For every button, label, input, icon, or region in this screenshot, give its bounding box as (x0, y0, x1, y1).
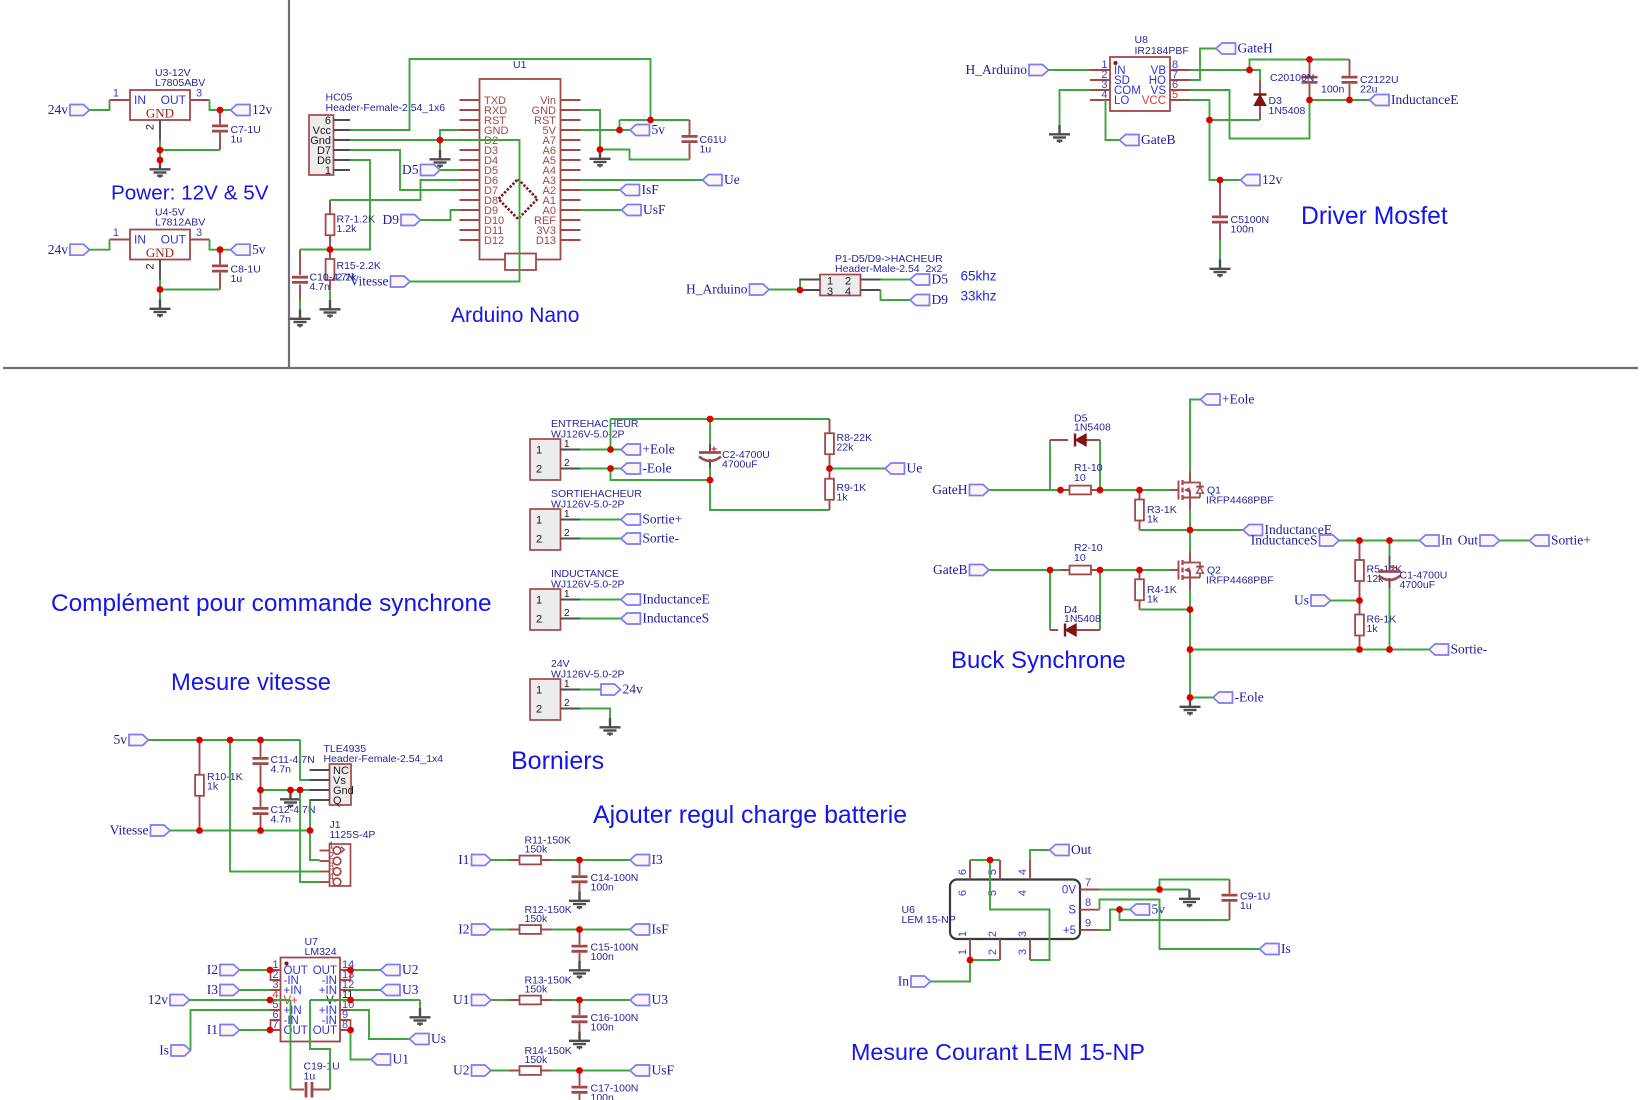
wire (90, 240, 110, 250)
svg-text:65khz: 65khz (961, 269, 997, 284)
wire Q to J1 pin2 (310, 800, 320, 860)
wire (1049, 69, 1091, 71)
net flag Us (1294, 593, 1331, 608)
wire (160, 140, 220, 160)
wire (240, 969, 271, 971)
ground (569, 1032, 590, 1050)
junction (1306, 56, 1313, 63)
svg-text:100n: 100n (591, 1092, 615, 1100)
svg-text:I2: I2 (207, 962, 218, 977)
svg-text:U1: U1 (453, 992, 470, 1007)
svg-text:1: 1 (113, 88, 119, 100)
junction (576, 926, 583, 933)
svg-text:OUT: OUT (284, 1025, 308, 1037)
wire (240, 989, 271, 991)
wire GateB row (989, 569, 1170, 571)
wire (552, 999, 631, 1001)
svg-text:2: 2 (536, 464, 542, 476)
svg-text:IRFP4468PBF: IRFP4468PBF (1206, 575, 1274, 587)
net flag Is (2) (1260, 941, 1291, 956)
svg-text:+5: +5 (1063, 925, 1076, 937)
diode D4 (1050, 570, 1101, 637)
net flag Us (2) (410, 1031, 447, 1046)
junction (967, 957, 974, 964)
junction (616, 127, 623, 134)
capacitor capacitor C2122U (1342, 60, 1399, 101)
svg-text:4.7n: 4.7n (310, 281, 331, 293)
net flag D9 (383, 212, 421, 227)
junction (1187, 694, 1194, 701)
svg-text:4.7n: 4.7n (271, 814, 292, 826)
svg-text:Is: Is (159, 1043, 169, 1058)
wire gnd row (261, 789, 310, 791)
svg-text:5: 5 (1172, 89, 1178, 101)
svg-text:VCC: VCC (1142, 95, 1166, 107)
svg-text:150k: 150k (525, 1054, 549, 1066)
junction (196, 737, 203, 744)
svg-text:Mesure vitesse: Mesure vitesse (171, 669, 331, 696)
svg-text:1: 1 (113, 227, 119, 239)
junction (1187, 646, 1194, 653)
svg-text:Out: Out (1458, 533, 1478, 548)
wire net D7 (350, 150, 460, 190)
net flag +Eole (621, 442, 675, 457)
net flag I1 (ladder) (458, 852, 491, 867)
ground (1180, 698, 1201, 716)
wire gate Q1 (1140, 489, 1171, 491)
svg-text:Q: Q (333, 795, 342, 807)
wire V- net (310, 1000, 420, 1090)
wire InductanceE row (1140, 529, 1244, 531)
capacitor capacitor C12 (253, 790, 316, 831)
junction (347, 967, 354, 974)
svg-text:5: 5 (987, 890, 999, 896)
svg-text:2: 2 (145, 263, 157, 269)
svg-text:3: 3 (827, 286, 833, 298)
svg-text:1k: 1k (1147, 514, 1159, 526)
capacitor capacitor C14 (572, 860, 639, 894)
net flag GateH (1216, 41, 1273, 56)
ground (410, 1008, 431, 1026)
net flag Is (159, 1043, 190, 1058)
svg-text:2: 2 (536, 704, 542, 716)
svg-text:1u: 1u (231, 134, 243, 146)
svg-text:1.2k: 1.2k (337, 223, 358, 235)
wire (580, 689, 601, 691)
svg-text:1N5408: 1N5408 (1074, 422, 1111, 434)
svg-text:LM324: LM324 (305, 946, 337, 958)
wire (300, 250, 330, 310)
gate driver U8 (1090, 34, 1190, 111)
svg-text:1: 1 (564, 589, 570, 600)
wire (769, 280, 820, 291)
svg-text:IsF: IsF (652, 922, 670, 937)
junction (1306, 97, 1313, 104)
junction (797, 287, 804, 294)
svg-text:100n: 100n (591, 951, 615, 963)
capacitor C10 (292, 250, 354, 300)
wire pins 6-5 top (970, 859, 1000, 861)
wire +5 pin (1100, 910, 1120, 931)
net flag Vitesse (2) (110, 823, 170, 838)
svg-text:150k: 150k (525, 984, 549, 996)
svg-text:Sortie+: Sortie+ (1551, 533, 1591, 548)
wire Q1 source (1189, 510, 1191, 553)
net flag U2 (ladder) (453, 1063, 491, 1078)
svg-text:2: 2 (564, 608, 570, 619)
junction (257, 827, 264, 834)
svg-text:C20100N: C20100N (1270, 72, 1314, 84)
capacitor capacitor C16 (572, 1000, 639, 1034)
capacitor capacitor C20100N (1302, 60, 1318, 101)
svg-text:IN: IN (134, 93, 146, 107)
net flag Ue (2) (885, 461, 922, 476)
svg-text:Power: 12V & 5V: Power: 12V & 5V (111, 182, 269, 205)
junction (1116, 906, 1123, 913)
svg-text:1125S-4P: 1125S-4P (330, 829, 376, 841)
svg-text:Arduino Nano: Arduino Nano (451, 304, 579, 327)
resistor resistor R11 (509, 835, 571, 865)
current sensor U6 LEM 15-NP (902, 860, 1100, 960)
net flag InductanceE (1370, 92, 1459, 107)
svg-text:LO: LO (1114, 95, 1129, 107)
wire Vitesse row (170, 830, 310, 832)
svg-text:150k: 150k (525, 913, 549, 925)
ground (280, 790, 301, 808)
svg-text:4: 4 (1101, 89, 1107, 101)
svg-text:24v: 24v (623, 682, 644, 697)
net flag 24v (2) (48, 242, 90, 257)
svg-text:-Eole: -Eole (642, 461, 671, 476)
svg-text:D9: D9 (932, 292, 949, 307)
resistor resistor R1 (1061, 462, 1103, 494)
net flag GateB (1120, 132, 1176, 147)
resistor resistor R5 (1355, 541, 1402, 601)
net flag Out (2) (1050, 842, 1092, 857)
wire (581, 179, 703, 181)
svg-text:12v: 12v (1262, 172, 1283, 187)
junction (347, 1027, 354, 1034)
svg-text:2: 2 (987, 949, 999, 955)
svg-text:S: S (1068, 905, 1076, 917)
net flag Sortie- (2) (1429, 642, 1488, 657)
svg-text:D5: D5 (932, 272, 949, 287)
junction (826, 465, 833, 472)
wire VS to InductanceE (1190, 90, 1370, 139)
wire net D2 to Vitesse (410, 140, 520, 282)
junction (1156, 886, 1163, 893)
svg-text:+Eole: +Eole (1222, 392, 1254, 407)
net flag 5v (3) (1130, 902, 1165, 917)
resistor resistor R12 (509, 904, 572, 934)
svg-text:100n: 100n (1231, 224, 1255, 236)
wire C9 bottom to 5v net (1120, 910, 1230, 921)
wire S to Is (1100, 900, 1260, 950)
wire (1190, 400, 1201, 472)
junction (576, 1067, 583, 1074)
svg-text:5v: 5v (114, 732, 128, 747)
svg-text:150k: 150k (525, 844, 549, 856)
svg-text:24v: 24v (48, 242, 69, 257)
wire 0V to C9 top (1160, 880, 1230, 890)
net flag I3 (207, 982, 240, 997)
svg-text:Us: Us (1294, 593, 1309, 608)
net flag -Eole (2) (1213, 690, 1264, 705)
section divider vertical (288, 0, 290, 368)
svg-text:IR2184PBF: IR2184PBF (1135, 45, 1189, 57)
net flag 12v (231, 102, 273, 117)
svg-text:U2: U2 (453, 1063, 470, 1078)
junction (196, 827, 203, 834)
wire (580, 519, 621, 521)
svg-text:GateH: GateH (1238, 41, 1273, 56)
junction (257, 787, 264, 794)
wire V+ row (190, 1000, 291, 1090)
resistor resistor R8 (825, 419, 872, 469)
junction (597, 146, 604, 153)
capacitor C1 (polarized) (1379, 541, 1448, 650)
net flag 24v (48, 102, 90, 117)
svg-text:2: 2 (329, 851, 335, 862)
svg-text:22k: 22k (837, 442, 855, 454)
wire (491, 929, 509, 931)
svg-text:6: 6 (957, 869, 969, 875)
wire (581, 189, 621, 191)
svg-text:U3: U3 (652, 992, 669, 1007)
svg-text:1: 1 (325, 165, 331, 177)
resistor resistor R3 (1135, 490, 1177, 530)
svg-text:2: 2 (145, 124, 157, 130)
svg-text:Sortie-: Sortie- (642, 531, 679, 546)
resistor resistor R4 (1135, 570, 1177, 610)
net flag D5 (402, 162, 440, 177)
wire (351, 989, 381, 991)
net flag I2 (ladder) (458, 922, 491, 937)
svg-text:GateB: GateB (1141, 132, 1176, 147)
svg-text:3: 3 (196, 88, 202, 100)
wire pin10 to Us (351, 1010, 410, 1039)
net flag Sortie- (621, 531, 680, 546)
svg-text:1k: 1k (207, 781, 219, 793)
net flag U3 (ladder) (630, 992, 668, 1007)
wire (210, 100, 231, 110)
wire net GND-U1 (581, 110, 690, 160)
net flag U1 (flag) (371, 1052, 409, 1067)
junction (1187, 527, 1194, 534)
net flag 12v (2) (1241, 172, 1283, 187)
net flag 12v (3) (148, 992, 190, 1007)
wire LO to GateB (1106, 100, 1120, 140)
junction (1217, 177, 1224, 184)
svg-text:3: 3 (1017, 931, 1029, 937)
svg-text:D9: D9 (383, 212, 400, 227)
diode D5 (1050, 413, 1111, 491)
svg-text:R15-2.2K: R15-2.2K (337, 260, 381, 272)
junction (267, 1027, 274, 1034)
junction (647, 117, 654, 124)
svg-text:4700uF: 4700uF (722, 459, 758, 471)
svg-text:8: 8 (1085, 897, 1091, 909)
ground (590, 150, 611, 168)
wire (881, 279, 911, 281)
junction (1386, 646, 1393, 653)
svg-text:12v: 12v (148, 992, 169, 1007)
junction (257, 737, 264, 744)
junction (1097, 487, 1104, 494)
svg-text:4.7n: 4.7n (271, 764, 292, 776)
svg-text:Borniers: Borniers (511, 747, 604, 775)
svg-text:1: 1 (329, 841, 335, 852)
section divider horizontal (3, 367, 1638, 369)
net flag I3 (ladder) (630, 852, 663, 867)
wire -Eole (580, 469, 830, 511)
wire GateH (1190, 49, 1216, 81)
wire net 5V (581, 120, 690, 130)
svg-text:100n: 100n (591, 882, 615, 894)
wire (1500, 540, 1530, 542)
svg-text:1: 1 (564, 679, 570, 690)
junction (1047, 567, 1054, 574)
junction (1346, 97, 1353, 104)
capacitor C2 (polarized) (699, 419, 770, 480)
svg-text:GateB: GateB (933, 562, 968, 577)
resistor resistor R14 (509, 1045, 572, 1075)
net flag 5v (U1) (630, 122, 665, 137)
wire (240, 1029, 271, 1031)
junction (1136, 567, 1143, 574)
wire +Eole (580, 419, 830, 450)
svg-text:10: 10 (1074, 552, 1086, 564)
svg-text:2: 2 (564, 528, 570, 539)
svg-text:LEM 15-NP: LEM 15-NP (902, 914, 956, 926)
junction (437, 137, 444, 144)
ground (290, 310, 311, 328)
wire VCC to 12v (1190, 100, 1260, 180)
voltage regulator U3 (110, 67, 210, 140)
svg-text:Header-Female-2.54_1x6: Header-Female-2.54_1x6 (326, 102, 446, 114)
net flag InductanceE (2) (621, 592, 710, 607)
ground (569, 961, 590, 979)
svg-text:0V: 0V (1062, 885, 1076, 897)
wire net Vcc (350, 59, 651, 130)
wire C19 left lead (291, 1089, 305, 1091)
svg-text:OUT: OUT (313, 1025, 337, 1037)
svg-text:1u: 1u (231, 273, 243, 285)
net flag UsF (ladder) (630, 1063, 675, 1078)
wire (1220, 179, 1241, 181)
svg-text:3: 3 (329, 862, 335, 873)
net flag InductanceE (3) (1243, 522, 1332, 537)
net flag 24v (3) (601, 682, 643, 697)
net flag I1 (U7) (207, 1022, 240, 1037)
svg-text:IN: IN (134, 233, 146, 247)
svg-text:2: 2 (564, 458, 570, 469)
svg-text:5: 5 (987, 869, 999, 875)
wire (580, 538, 621, 540)
capacitor capacitor C15 (572, 930, 639, 964)
wire (90, 100, 110, 110)
net flag Vitesse (350, 274, 410, 289)
svg-text:4: 4 (845, 286, 851, 298)
diode D3 (1254, 81, 1306, 121)
wire GateH row (989, 489, 1170, 491)
junction (347, 997, 354, 1004)
net flag InductanceS (621, 611, 709, 626)
ground (150, 300, 171, 318)
resistor resistor R6 (1355, 601, 1396, 650)
svg-text:1: 1 (536, 595, 542, 607)
svg-text:100n: 100n (1321, 84, 1345, 96)
wire (580, 599, 621, 601)
wire (552, 1070, 631, 1072)
connector INDUCTANCE (530, 568, 625, 630)
resistor resistor R10 (195, 740, 243, 831)
wire (491, 1070, 509, 1072)
resistor resistor R13 (509, 975, 572, 1005)
wire through U6 to pin3 (990, 860, 1050, 960)
wire Ue (830, 468, 886, 470)
net flag GateH (2) (932, 482, 989, 497)
net flag I2 (U7) (207, 962, 240, 977)
svg-text:L7812ABV: L7812ABV (155, 217, 205, 229)
connector 24V (530, 658, 625, 720)
wire Q2 source down (1189, 590, 1191, 650)
svg-text:10: 10 (1074, 472, 1086, 484)
svg-text:1k: 1k (1147, 594, 1159, 606)
junction (576, 997, 583, 1004)
svg-text:1u: 1u (304, 1071, 316, 1083)
svg-text:Header-Female-2.54_1x4: Header-Female-2.54_1x4 (324, 753, 444, 765)
svg-text:InductanceE: InductanceE (642, 592, 709, 607)
svg-text:1u: 1u (700, 144, 712, 156)
wire Out (1030, 850, 1050, 860)
capacitor capacitor C8 (212, 250, 261, 290)
junction (297, 787, 304, 794)
wire (351, 969, 381, 971)
svg-text:Mesure Courant LEM 15-NP: Mesure Courant LEM 15-NP (851, 1039, 1145, 1065)
wire R7 top to U1 D6 (330, 180, 460, 200)
svg-text:H_Arduino: H_Arduino (686, 282, 748, 297)
arduino nano U1 (460, 59, 581, 270)
wire net D6 to R7 bottom (330, 160, 370, 250)
svg-text:D5: D5 (402, 162, 419, 177)
junction (1356, 646, 1363, 653)
transistor Q2 (1170, 552, 1274, 590)
wire (581, 209, 622, 211)
wire Us (1331, 600, 1360, 602)
svg-text:InductanceS: InductanceS (642, 611, 709, 626)
ground (150, 160, 171, 178)
wire pin5 to Is (191, 1010, 271, 1051)
svg-text:1: 1 (536, 515, 542, 527)
svg-text:IsF: IsF (642, 182, 660, 197)
wire J1 pin4 to gnd row (300, 790, 320, 882)
net flag In (2) (898, 974, 931, 989)
net flag D5 (P1) (910, 272, 948, 287)
junction (576, 857, 583, 864)
wire net Gnd (350, 139, 460, 141)
svg-text:Out: Out (1071, 842, 1091, 857)
svg-text:I1: I1 (207, 1022, 218, 1037)
svg-text:I1: I1 (458, 852, 469, 867)
net flag Ue (703, 172, 740, 187)
net flag 5v (2) (114, 732, 149, 747)
ground (1179, 890, 1200, 908)
transistor Q1 (1170, 472, 1274, 510)
wire (580, 709, 610, 719)
net flag D9 (P1) (910, 292, 948, 307)
svg-text:Ajouter regul charge batterie: Ajouter regul charge batterie (593, 801, 907, 829)
